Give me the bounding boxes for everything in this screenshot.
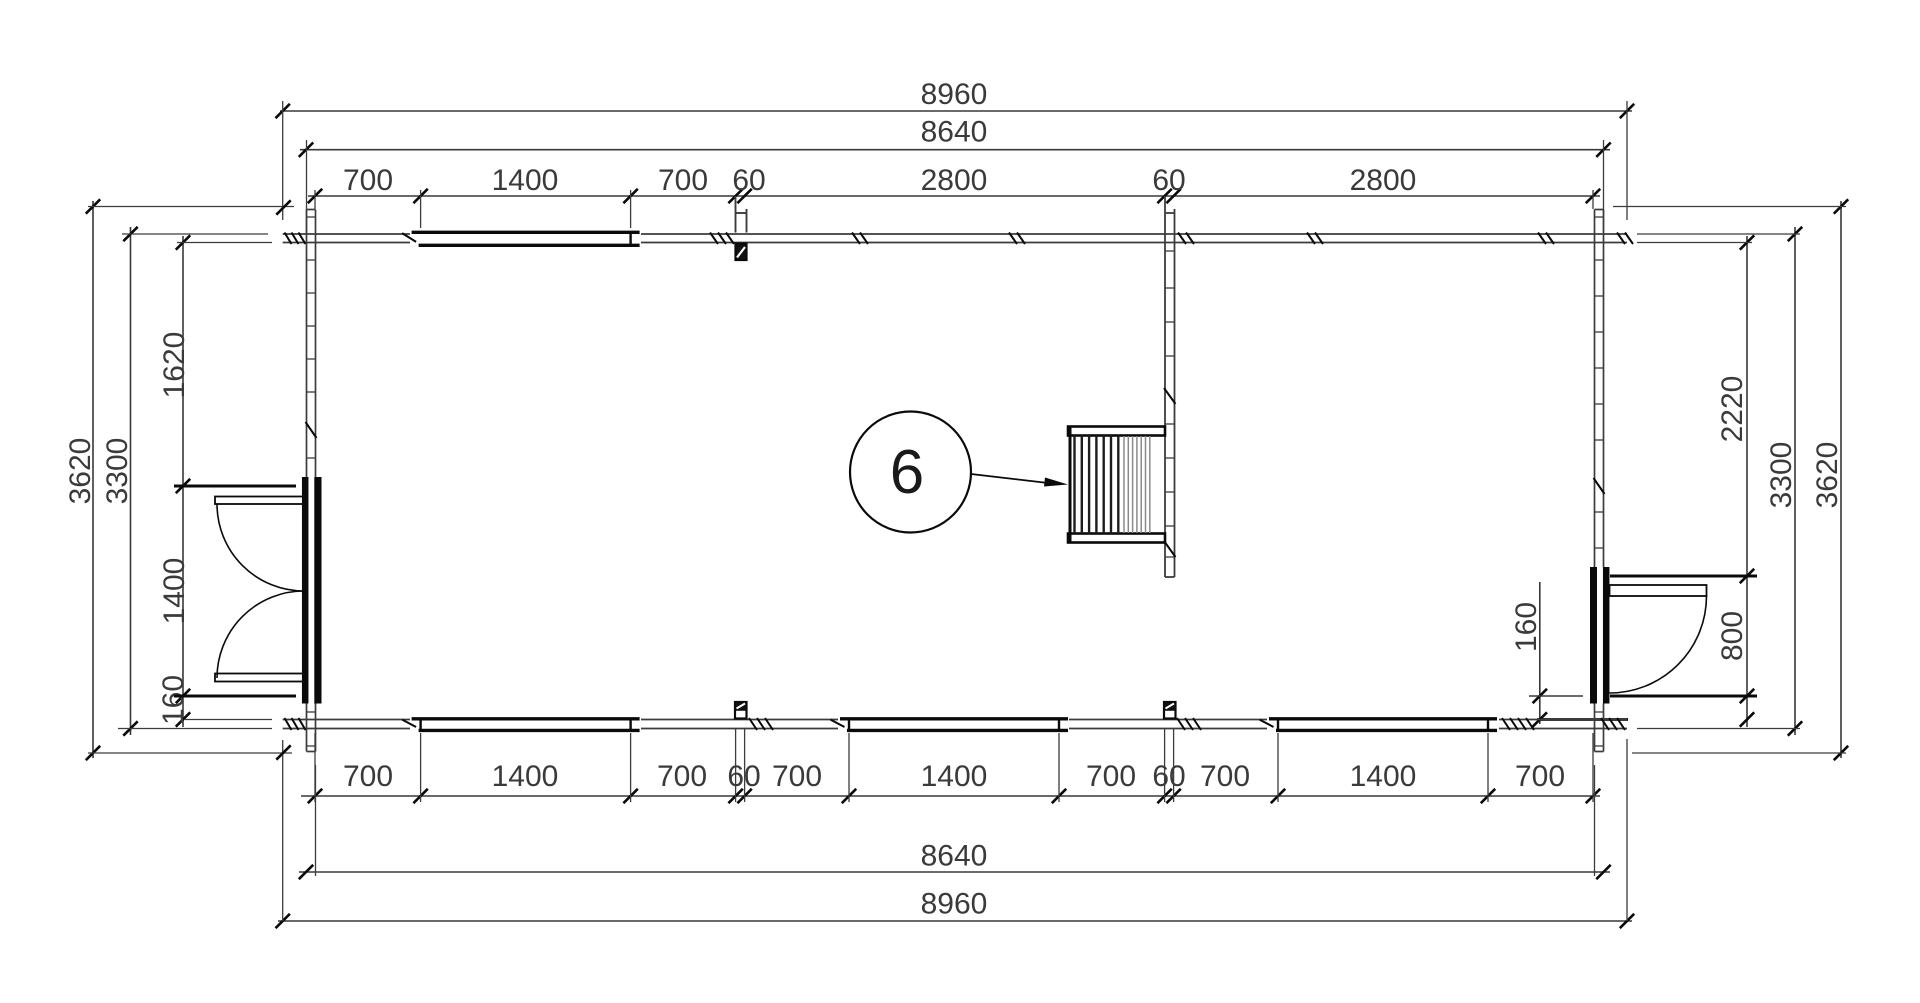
partition wall B top cap xyxy=(1165,212,1175,214)
bottom wall break marks at left overhang xyxy=(285,718,292,730)
wall bottom inner face xyxy=(283,719,410,721)
wall right top cap xyxy=(1595,209,1604,211)
top wall break marks 4 xyxy=(1307,233,1315,245)
extension line 8640 bottom-left xyxy=(315,765,317,876)
svg-text:700: 700 xyxy=(1515,760,1565,793)
left door top swing arc xyxy=(217,504,304,591)
wall left top cap xyxy=(307,209,316,211)
tick 8640 bottom right xyxy=(1596,865,1610,879)
extension line 3620 left-top xyxy=(88,206,294,208)
left door top leaf xyxy=(215,497,304,505)
tick bottom chain 9 xyxy=(1166,789,1180,803)
svg-text:1620: 1620 xyxy=(158,332,191,399)
extension line 3300 left-bottom xyxy=(118,728,272,730)
dimension line top chain xyxy=(308,195,1600,197)
right wall log joints xyxy=(1595,216,1604,218)
tick bottom chain 10 xyxy=(1271,789,1285,803)
top wall break marks 3 xyxy=(1009,233,1017,245)
wall bottom outer face xyxy=(283,728,410,730)
dimension line 3620 (right) xyxy=(1840,201,1842,758)
tick 3300 right bottom xyxy=(1788,721,1802,735)
extension line right door bottom (bold) xyxy=(1610,695,1757,698)
extension line right door top (bold) xyxy=(1610,575,1757,578)
tick left chain 4 xyxy=(176,712,190,726)
bottom wall break marks at right overhang xyxy=(1601,718,1609,730)
tick top chain 6 xyxy=(1157,189,1171,203)
svg-text:60: 60 xyxy=(1152,164,1185,197)
extension line top chain left end xyxy=(314,190,316,209)
left wall log joints xyxy=(307,216,316,218)
wall right outer face xyxy=(1603,210,1605,568)
tick 8960 top left xyxy=(276,104,290,118)
tick 3620 left bottom xyxy=(86,746,100,760)
svg-text:2800: 2800 xyxy=(1350,164,1417,197)
dimension line right chain xyxy=(1746,236,1748,727)
wall left outer face xyxy=(306,210,308,478)
extension line bottom stub A left xyxy=(735,729,737,802)
tick 8640 bottom left xyxy=(299,865,313,879)
window bottom wall 1 (1400) xyxy=(412,717,640,720)
tick bottom chain 12 xyxy=(1586,789,1600,803)
tick top chain 3 xyxy=(623,189,637,203)
partition wall B log joints xyxy=(1165,250,1175,252)
callout leader arrowhead xyxy=(1044,478,1068,487)
dimension line 8960 (bottom) xyxy=(278,920,1632,922)
svg-text:3620: 3620 xyxy=(1811,442,1844,509)
svg-text:2220: 2220 xyxy=(1716,376,1749,443)
dimension line 160 (right door) xyxy=(1539,582,1541,724)
top wall break marks after wall B xyxy=(1178,233,1186,245)
tick 8640 top right xyxy=(1596,143,1610,157)
tick 8960 bottom right xyxy=(1620,914,1634,928)
dimension line 3620 (left) xyxy=(92,201,94,758)
svg-text:800: 800 xyxy=(1716,611,1749,661)
tick 8960 top right xyxy=(1620,104,1634,118)
tick top chain 2 xyxy=(413,189,427,203)
tick bottom chain 11 xyxy=(1481,789,1495,803)
extension line 3300 right-bottom xyxy=(1637,728,1800,730)
window top wall (1400) xyxy=(412,231,640,234)
extension line bottom stub B left xyxy=(1164,729,1166,802)
extension line bottom stub A right xyxy=(744,729,746,802)
extension line bottom w2 left xyxy=(848,733,850,802)
tick left chain 1 xyxy=(176,235,190,249)
tick top chain 7 xyxy=(1166,189,1180,203)
stairs top rail xyxy=(1068,427,1165,436)
extension line top window right xyxy=(630,190,632,228)
svg-text:1400: 1400 xyxy=(158,558,191,625)
bottom wall break marks 2 xyxy=(1177,718,1185,730)
extension line 3620 left-bottom xyxy=(88,752,292,754)
extension line left door top (bold) xyxy=(174,485,296,488)
extension line left door bottom (bold) xyxy=(174,695,296,698)
extension line top window left xyxy=(420,190,422,228)
stairs bottom rail xyxy=(1068,534,1165,543)
right door frame jamb inner xyxy=(1590,567,1597,704)
wall right inner face xyxy=(1594,210,1596,568)
tick top chain 5 xyxy=(737,189,751,203)
extension line 3300 left-top xyxy=(122,233,268,235)
tick 8640 top left xyxy=(299,143,313,157)
tick bottom chain 1 xyxy=(308,789,322,803)
tick 3300 right top xyxy=(1788,227,1802,241)
svg-text:700: 700 xyxy=(772,760,822,793)
extension line left chain bottom xyxy=(185,719,272,721)
right door frame jamb outer xyxy=(1603,567,1610,704)
extension line top chain right end xyxy=(1592,190,1594,209)
extension line 8960 top-right xyxy=(1626,101,1628,220)
window bottom wall 2 (1400) xyxy=(840,717,1068,720)
tick bottom chain 8 xyxy=(1157,789,1171,803)
svg-text:700: 700 xyxy=(658,164,708,197)
tick 160 right 2 xyxy=(1533,712,1547,726)
svg-text:700: 700 xyxy=(657,760,707,793)
right door leaf xyxy=(1610,585,1707,596)
tick left chain 3 xyxy=(176,689,190,703)
svg-text:3620: 3620 xyxy=(64,438,97,505)
tick 3620 right top xyxy=(1834,199,1848,213)
extension line 8960 top-left xyxy=(282,101,284,220)
extension line 8640 bottom-right xyxy=(1594,765,1596,876)
wall top inner face xyxy=(283,242,410,244)
left door bottom leaf xyxy=(215,674,304,682)
tick bottom chain 7 xyxy=(1052,789,1066,803)
bottom wall break marks 1 xyxy=(749,718,757,730)
tick 160 right 1 xyxy=(1533,689,1547,703)
left door frame jamb inner xyxy=(314,477,321,704)
svg-text:700: 700 xyxy=(343,164,393,197)
extension line bottom w2 right xyxy=(1058,733,1060,802)
tick bottom chain 5 xyxy=(737,789,751,803)
extension line 3620 right-bottom xyxy=(1632,752,1846,754)
tick 3300 left top xyxy=(123,227,137,241)
tick left chain 2 xyxy=(176,479,190,493)
svg-text:3300: 3300 xyxy=(101,438,134,505)
svg-text:160: 160 xyxy=(1510,602,1543,652)
svg-text:8640: 8640 xyxy=(921,116,988,149)
callout leader line xyxy=(971,474,1048,483)
tick at 3620 left-top overhang crossing xyxy=(276,200,290,214)
dimension line 3300 (right) xyxy=(1794,227,1796,735)
tick right chain 3 xyxy=(1740,689,1754,703)
interior wall stub A' (bottom, 60) xyxy=(735,702,747,719)
extension line bottom w3 left xyxy=(1277,733,1279,802)
bottom wall inner face bold segment at right door xyxy=(1537,718,1628,721)
svg-text:8960: 8960 xyxy=(921,888,988,921)
extension line 160 right (door bottom) xyxy=(1529,695,1583,697)
extension line bottom end left xyxy=(314,733,316,802)
tick right chain 4 xyxy=(1740,712,1754,726)
dimension line 8960 (top) xyxy=(280,110,1632,112)
dimension line 8640 (bottom) xyxy=(299,871,1610,873)
svg-text:60: 60 xyxy=(1152,760,1185,793)
dimension line bottom chain xyxy=(301,795,1600,797)
extension line 3300 right-top xyxy=(1637,233,1800,235)
svg-text:8640: 8640 xyxy=(921,840,988,873)
extension line bottom stub B right xyxy=(1173,729,1175,802)
right door swing arc xyxy=(1610,596,1707,693)
extension line 8640 top-right xyxy=(1603,140,1605,232)
tick 3620 left top xyxy=(86,199,100,213)
tick at 3620 left-bottom overhang crossing xyxy=(276,745,290,759)
extension line bottom w1 right xyxy=(630,733,632,802)
tick top chain 1 xyxy=(308,189,322,203)
svg-text:1400: 1400 xyxy=(1350,760,1417,793)
svg-text:2800: 2800 xyxy=(921,164,988,197)
extension line 8960 bottom-right xyxy=(1626,739,1628,921)
dimension line left chain xyxy=(182,236,184,727)
top wall break marks 1 xyxy=(710,233,718,245)
window bottom wall 3 (1400) xyxy=(1269,717,1497,720)
interior wall stub A (top, 60) xyxy=(735,196,737,233)
tick bottom chain 2 xyxy=(413,789,427,803)
svg-text:8960: 8960 xyxy=(921,78,988,111)
callout circle 6 xyxy=(850,412,971,533)
svg-text:1400: 1400 xyxy=(492,760,559,793)
extension line bottom w1 left xyxy=(420,733,422,802)
stairs treads (near) xyxy=(1073,436,1075,534)
left door frame jamb outer xyxy=(302,477,309,704)
tick top chain 4 xyxy=(728,189,742,203)
tick right chain 2 xyxy=(1740,569,1754,583)
left wall break mark xyxy=(306,422,317,438)
extension line right chain top xyxy=(1637,242,1752,244)
svg-text:1400: 1400 xyxy=(492,164,559,197)
wall right bottom cap xyxy=(1595,751,1604,753)
tick right chain 1 xyxy=(1740,235,1754,249)
extension line 8960 bottom-left xyxy=(282,740,284,921)
top wall break marks at right overhang xyxy=(1617,233,1625,245)
partition wall B bottom cap xyxy=(1165,576,1175,578)
extension line 8640 top-left xyxy=(306,140,308,232)
svg-text:6: 6 xyxy=(890,438,924,507)
partition wall B right face xyxy=(1174,209,1176,577)
tick bottom chain 6 xyxy=(842,789,856,803)
wall left bottom cap xyxy=(307,751,316,753)
tick 3620 right bottom xyxy=(1834,746,1848,760)
svg-text:3300: 3300 xyxy=(1765,442,1798,509)
wall left inner face xyxy=(315,210,317,478)
top wall break marks at left overhang xyxy=(285,233,292,245)
right wall break mark xyxy=(1594,478,1605,494)
stairs left stringer xyxy=(1069,427,1072,543)
svg-text:700: 700 xyxy=(1086,760,1136,793)
dimension line 8640 (top) xyxy=(300,149,1610,151)
partition wall B break mark 1 xyxy=(1164,388,1176,404)
stairs treads (far, light) xyxy=(1123,436,1125,533)
svg-text:60: 60 xyxy=(732,164,765,197)
extension line left chain top xyxy=(177,242,272,244)
tick 3300 left bottom xyxy=(123,721,137,735)
top wall break marks 2 xyxy=(852,233,860,245)
svg-text:1400: 1400 xyxy=(921,760,988,793)
extension line bottom w3 right xyxy=(1487,733,1489,802)
extension line bottom end right xyxy=(1592,733,1594,802)
top wall break marks 5 xyxy=(1538,233,1546,245)
tick top chain 8 xyxy=(1586,189,1600,203)
svg-text:160: 160 xyxy=(157,675,190,725)
tick 8960 bottom left xyxy=(276,914,290,928)
tick bottom chain 4 xyxy=(728,789,742,803)
svg-text:700: 700 xyxy=(343,760,393,793)
left door bottom swing arc xyxy=(217,591,304,678)
wall top outer face xyxy=(283,233,410,235)
bottom wall break marks 3 xyxy=(1502,718,1510,730)
interior wall stub B' (bottom, 60) xyxy=(1164,702,1176,719)
dimension line 3300 (left) xyxy=(130,227,132,735)
extension line 3620 right-top xyxy=(1613,206,1846,208)
tick bottom chain 3 xyxy=(623,789,637,803)
partition wall B break mark 2 xyxy=(1164,541,1176,557)
partition wall B left face xyxy=(1164,196,1166,577)
svg-text:700: 700 xyxy=(1200,760,1250,793)
